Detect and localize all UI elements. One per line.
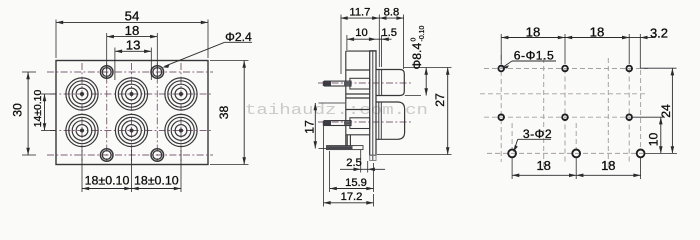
centerline horizontal jack row 1 [50, 93, 212, 95]
svg-text:18±0.10: 18±0.10 [134, 173, 179, 187]
hole layout centerline vertical bottom col 2 [575, 123, 577, 150]
side view body line below row 1 [346, 93, 370, 95]
side view centerline row 1 [318, 82, 412, 84]
svg-text:Φ8.4: Φ8.4 [410, 43, 424, 70]
centerline vertical rivet column left [106, 63, 108, 161]
centerline vertical jack column 1 [81, 63, 83, 161]
pin hole phi 1.5 row 2 col 3 [626, 114, 632, 120]
hole layout centerline vertical rivet 1 [543, 58, 545, 168]
RCA jack row2 col3 concentric circles [165, 114, 197, 146]
dimension phi 8.4 0/-0.10 rotated label [404, 67, 452, 69]
side view barrel row 2 boss edges [378, 102, 380, 139]
centerline vertical rivet column right [156, 63, 158, 161]
dimension 11.7 [340, 15, 342, 75]
dimension 2.5 [360, 150, 362, 173]
hole layout centerline vertical bottom col 3 [640, 70, 642, 150]
hole layout centerline vertical bottom col 1 [511, 123, 513, 150]
svg-text:17: 17 [303, 120, 317, 134]
centerline horizontal jack row 2 [50, 130, 212, 132]
svg-text:-0.10: -0.10 [419, 25, 426, 41]
svg-text:10: 10 [355, 27, 367, 39]
svg-text:17.2: 17.2 [341, 191, 363, 203]
side view flange middle line [372, 51, 374, 160]
hole layout centerline horizontal row 2 [484, 116, 632, 118]
svg-text:30: 30 [11, 103, 25, 117]
dimension 17 left of side view [319, 102, 346, 104]
svg-text:15.9: 15.9 [345, 177, 367, 189]
dimension 18 bottom left segment [511, 158, 513, 179]
dimension 54 top width [55, 20, 57, 59]
RCA jack row1 col1 concentric circles [66, 78, 98, 110]
svg-text:6-Φ1.5: 6-Φ1.5 [514, 49, 555, 63]
hole layout centerline horizontal row 3 [487, 152, 643, 154]
RCA jack row1 col2 concentric circles [115, 78, 147, 110]
svg-text:8.8: 8.8 [384, 6, 400, 18]
centerline horizontal rivet row top [47, 71, 213, 73]
hole layout centerline vertical col 3 [628, 69, 630, 163]
side view pin holder row 1 [350, 78, 370, 89]
svg-text:54: 54 [125, 9, 140, 24]
dimension 30 left side [22, 71, 36, 73]
hole layout centerline vertical rivet 2 [607, 58, 609, 168]
dimension 18 top rivet spacing [106, 33, 108, 79]
svg-text:27: 27 [433, 93, 447, 107]
centerline horizontal rivet row bottom [47, 154, 213, 156]
svg-text:10: 10 [647, 133, 661, 147]
side view body line below row 2 [346, 134, 370, 136]
hole layout centerline horizontal row 1 [484, 68, 648, 70]
mounting rivet hole top-right (phi 2.4) [151, 66, 164, 79]
svg-text:3-Φ2: 3-Φ2 [523, 127, 552, 141]
dimension 14 +/-0.10 jack row spacing [41, 93, 56, 95]
side view flange plate [370, 51, 376, 156]
dimension 8.8 [403, 15, 405, 70]
side view barrel row 1 boss edges [378, 70, 380, 96]
side view body line row 2 top [346, 97, 370, 99]
mounting rivet hole bottom-right (phi 2.4) [151, 149, 164, 162]
side view jack body upper block row 1 [346, 50, 376, 52]
centerline vertical jack column 3 [180, 63, 182, 161]
pin hole phi 1.5 row 1 col 1 [498, 66, 504, 72]
front view body rectangle [56, 61, 208, 165]
dimension 38 right side height [210, 60, 249, 62]
pin hole phi 1.5 row 1 col 3 [626, 66, 632, 72]
dimension 10 right side [633, 116, 665, 118]
RCA jack row2 col1 concentric circles [66, 114, 98, 146]
hole layout centerline vertical col 2 [564, 69, 566, 163]
pin hole phi 1.5 row 1 col 2 [562, 66, 568, 72]
side view pin holder row 2 [350, 118, 370, 129]
svg-text:24: 24 [659, 104, 673, 118]
side view solder pin row 2 [325, 121, 352, 126]
dimension 24 right side [640, 67, 676, 69]
mounting rivet hole bottom-left (phi 2.4) [100, 149, 113, 162]
svg-text:18: 18 [601, 158, 615, 173]
svg-text:11.7: 11.7 [349, 6, 370, 18]
dimension 18+/-0.10 bottom right segment [132, 188, 182, 190]
side view mounting leg vertical [346, 135, 348, 146]
ground hole phi 2 col 3 [637, 150, 645, 158]
svg-text:18: 18 [536, 158, 550, 173]
dimension 15.9 [329, 151, 331, 192]
svg-text:2.5: 2.5 [346, 157, 362, 169]
side view flange bottom tab [370, 155, 376, 160]
dimension 18+/-0.10 bottom left segment [81, 150, 83, 192]
svg-text:18: 18 [590, 25, 605, 40]
side view mounting foot [327, 146, 364, 150]
dimension 17.2 [323, 125, 325, 207]
dimension 18 top left segment [500, 34, 502, 64]
svg-text:18: 18 [526, 25, 541, 40]
svg-text:14±0.10: 14±0.10 [33, 90, 44, 128]
centerline vertical jack column 2 [131, 63, 133, 161]
svg-text:38: 38 [217, 106, 231, 120]
hole layout centerline horizontal middle [480, 93, 648, 95]
hole layout centerline vertical col 1 [500, 55, 502, 162]
dimension 3.2 [639, 34, 641, 68]
svg-text:taihaudz.:com.cn: taihaudz.:com.cn [245, 102, 428, 119]
dimension 13 [114, 48, 116, 81]
dimension 1.5 [381, 35, 383, 67]
svg-text:1.5: 1.5 [381, 27, 397, 39]
RCA jack row2 col2 concentric circles [115, 114, 147, 146]
side view barrel row 2 [376, 102, 405, 139]
pin hole phi 1.5 row 2 col 1 [498, 114, 504, 120]
svg-text:18: 18 [125, 23, 140, 38]
svg-text:13: 13 [126, 38, 141, 53]
svg-text:18±0.10: 18±0.10 [85, 173, 130, 187]
ground hole phi 2 col 1 [508, 150, 516, 158]
RCA jack row1 col3 concentric circles [165, 78, 197, 110]
ground hole phi 2 col 2 [572, 150, 580, 158]
side view solder pin row 1 [325, 81, 352, 86]
mounting rivet hole top-left (phi 2.4) [100, 66, 113, 79]
dimension 18 bottom right segment [576, 174, 640, 176]
pin hole phi 1.5 row 2 col 2 [562, 114, 568, 120]
dimension 10 side view [346, 35, 348, 50]
svg-text:0: 0 [411, 38, 418, 42]
side view barrel row 1 (phi 8.4) [376, 70, 404, 96]
side view centerline row 2 [318, 121, 412, 123]
dimension 27 right of side view [377, 154, 452, 156]
dimension 18 top right segment [565, 37, 629, 39]
svg-text:3.2: 3.2 [650, 26, 668, 41]
